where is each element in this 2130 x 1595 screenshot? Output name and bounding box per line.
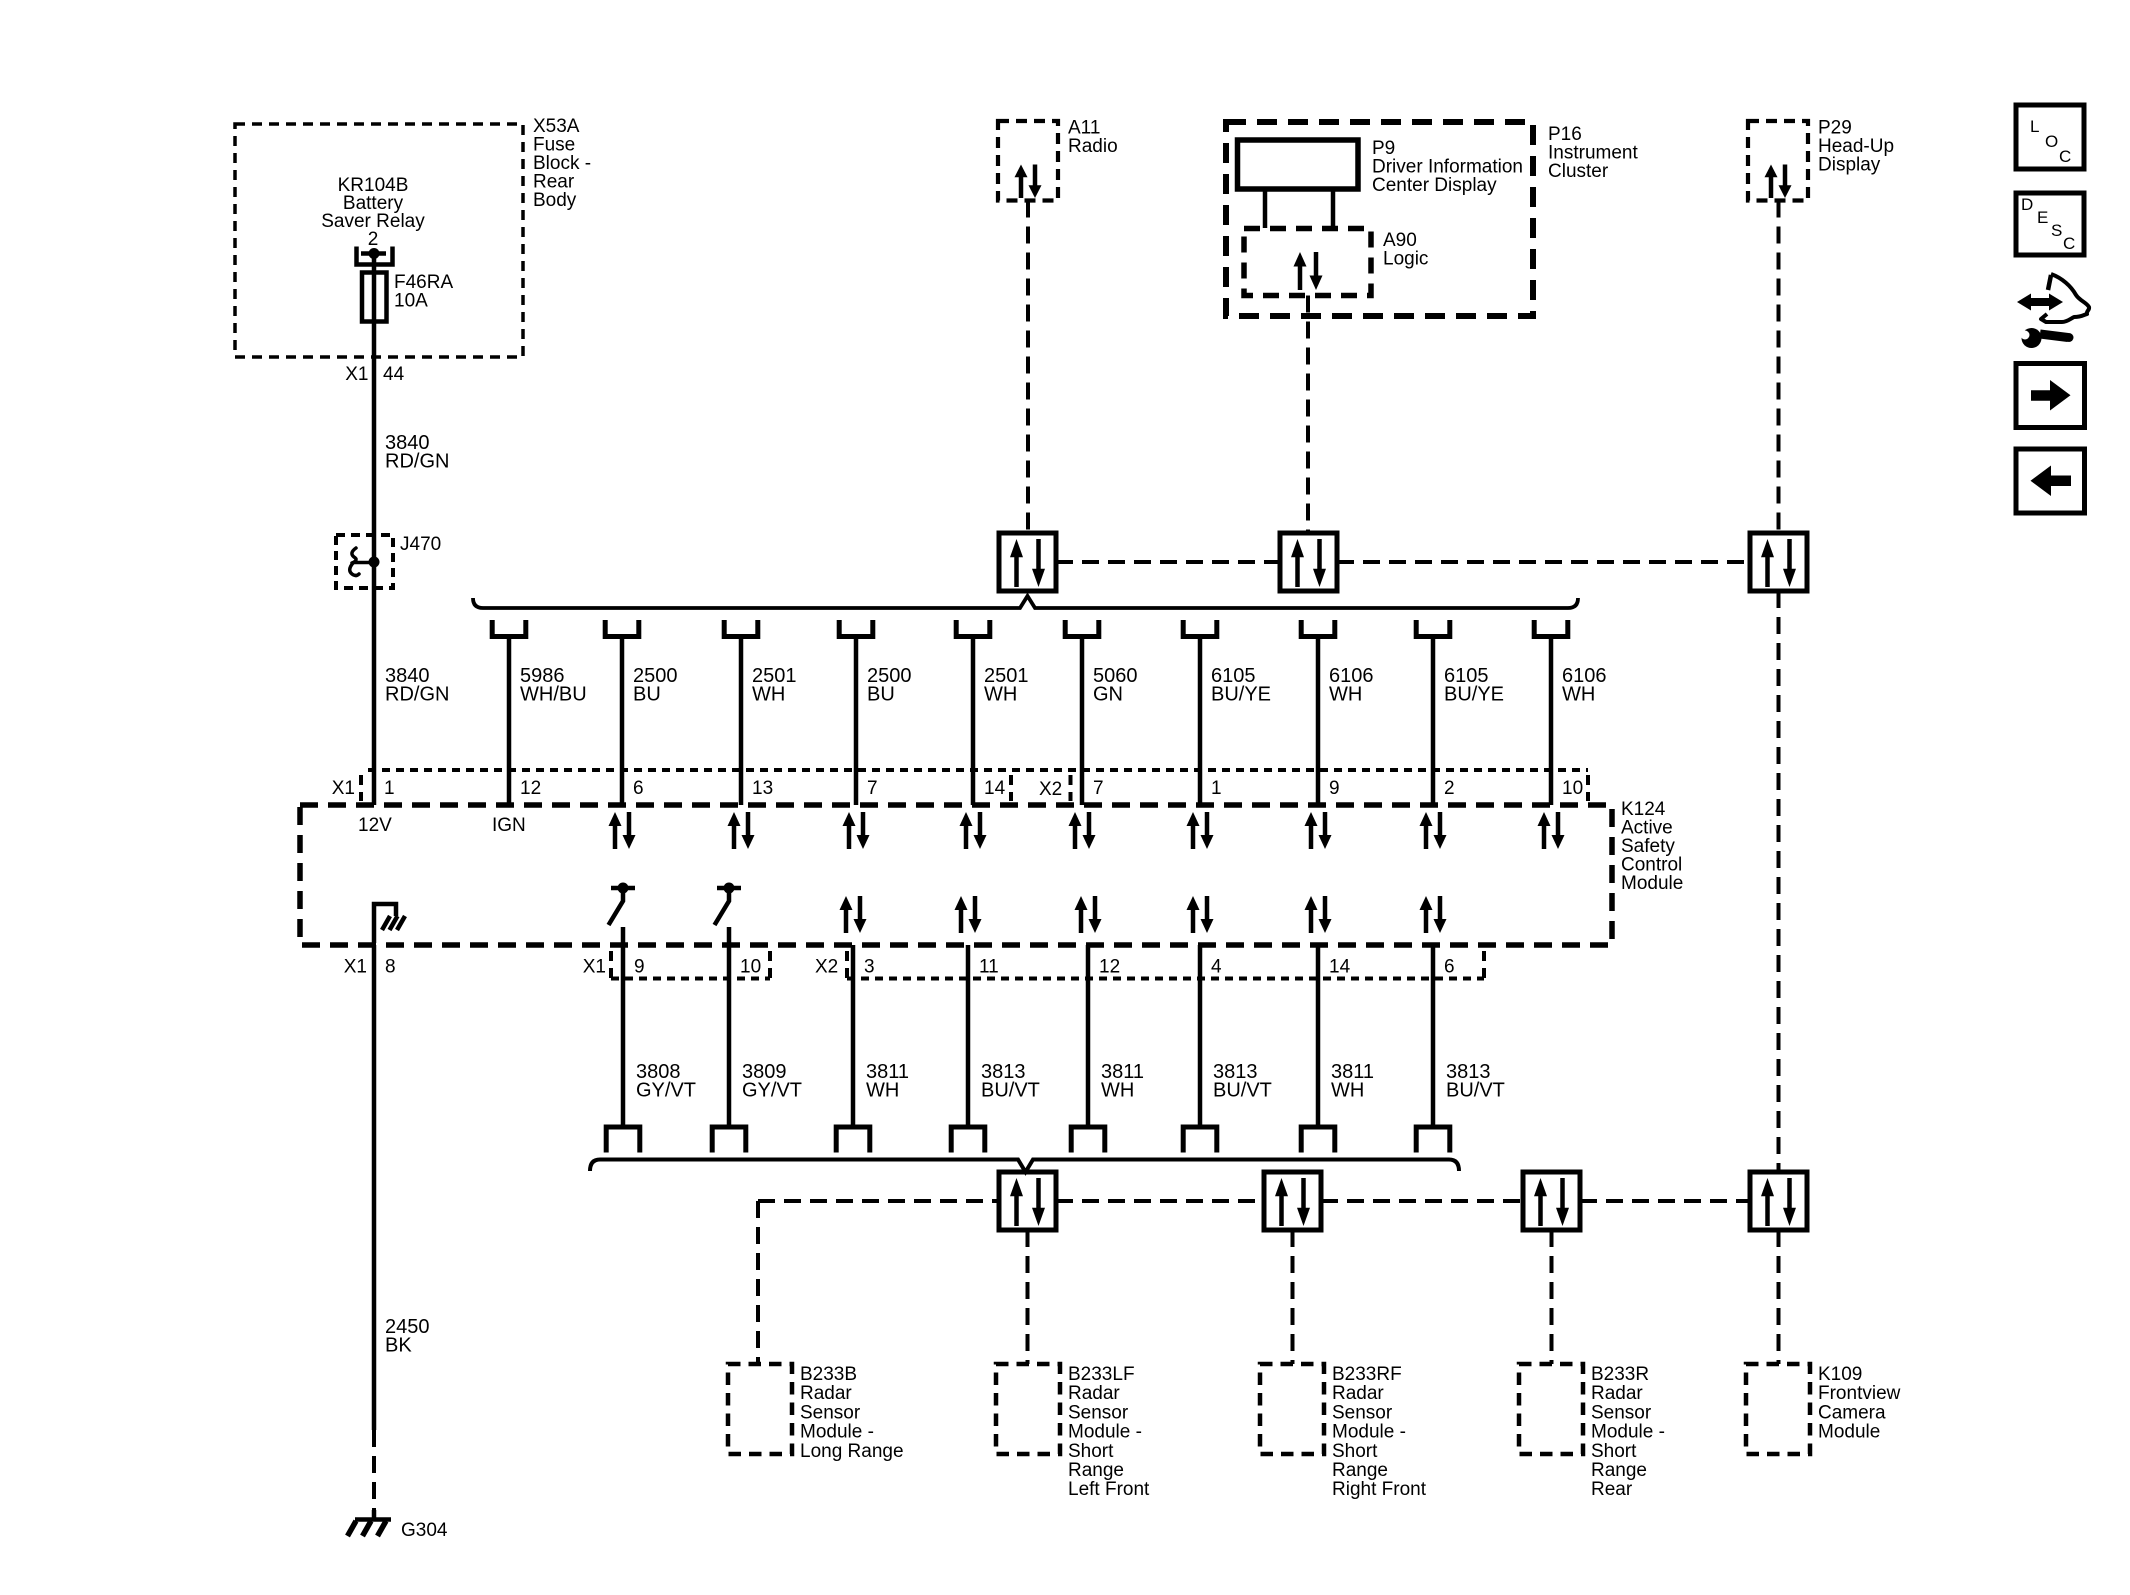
svg-text:K109: K109 xyxy=(1818,1364,1862,1385)
svg-text:Module -: Module - xyxy=(1068,1422,1142,1443)
svg-text:X2: X2 xyxy=(1039,779,1062,800)
svg-text:Cluster: Cluster xyxy=(1548,161,1609,182)
svg-text:Radar: Radar xyxy=(800,1383,852,1404)
svg-text:10A: 10A xyxy=(394,291,428,312)
svg-text:B233R: B233R xyxy=(1591,1364,1649,1385)
svg-text:X1: X1 xyxy=(345,364,368,385)
svg-text:WH: WH xyxy=(1562,684,1595,706)
svg-text:Radar: Radar xyxy=(1068,1383,1120,1404)
svg-text:L: L xyxy=(2030,117,2039,136)
svg-text:Short: Short xyxy=(1068,1441,1114,1462)
svg-text:Module: Module xyxy=(1818,1422,1880,1443)
svg-text:10: 10 xyxy=(1562,778,1583,799)
svg-text:3: 3 xyxy=(864,957,875,978)
svg-text:RD/GN: RD/GN xyxy=(385,684,449,706)
svg-text:BU: BU xyxy=(867,684,895,706)
svg-text:C: C xyxy=(2063,234,2075,253)
svg-text:X1: X1 xyxy=(344,957,367,978)
svg-text:2: 2 xyxy=(1444,778,1455,799)
svg-text:10: 10 xyxy=(740,957,761,978)
svg-text:C: C xyxy=(2059,147,2071,166)
svg-text:8: 8 xyxy=(385,957,396,978)
svg-text:Logic: Logic xyxy=(1383,249,1428,270)
svg-text:9: 9 xyxy=(1329,778,1340,799)
svg-text:WH: WH xyxy=(1331,1080,1364,1102)
svg-text:X1: X1 xyxy=(583,957,606,978)
svg-text:Module -: Module - xyxy=(1591,1422,1665,1443)
svg-text:Radar: Radar xyxy=(1591,1383,1643,1404)
svg-text:BU/VT: BU/VT xyxy=(981,1080,1040,1102)
svg-text:9: 9 xyxy=(634,957,645,978)
svg-text:BU/YE: BU/YE xyxy=(1211,684,1271,706)
svg-text:Radio: Radio xyxy=(1068,136,1118,157)
svg-text:B233B: B233B xyxy=(800,1364,857,1385)
svg-text:Range: Range xyxy=(1591,1460,1647,1481)
svg-text:Sensor: Sensor xyxy=(1591,1402,1652,1423)
svg-text:G304: G304 xyxy=(401,1520,448,1541)
svg-text:Frontview: Frontview xyxy=(1818,1383,1901,1404)
svg-text:O: O xyxy=(2045,132,2058,151)
svg-text:Module: Module xyxy=(1621,873,1683,894)
svg-text:14: 14 xyxy=(1329,957,1351,978)
svg-text:D: D xyxy=(2021,195,2033,214)
svg-text:Sensor: Sensor xyxy=(800,1402,861,1423)
svg-text:11: 11 xyxy=(979,957,999,978)
svg-text:WH: WH xyxy=(752,684,785,706)
svg-text:1: 1 xyxy=(384,778,395,799)
svg-text:BU/VT: BU/VT xyxy=(1213,1080,1272,1102)
svg-text:Sensor: Sensor xyxy=(1332,1402,1393,1423)
svg-text:B233RF: B233RF xyxy=(1332,1364,1402,1385)
svg-text:7: 7 xyxy=(867,778,878,799)
svg-text:X1: X1 xyxy=(332,778,355,799)
svg-text:13: 13 xyxy=(752,778,773,799)
svg-text:B233LF: B233LF xyxy=(1068,1364,1135,1385)
svg-text:BK: BK xyxy=(385,1335,412,1357)
svg-text:Display: Display xyxy=(1818,155,1881,176)
svg-text:Range: Range xyxy=(1332,1460,1388,1481)
svg-text:GY/VT: GY/VT xyxy=(742,1080,802,1102)
svg-text:WH/BU: WH/BU xyxy=(520,684,587,706)
svg-text:S: S xyxy=(2051,221,2062,240)
svg-text:4: 4 xyxy=(1211,957,1222,978)
svg-text:44: 44 xyxy=(383,364,405,385)
svg-text:J470: J470 xyxy=(400,534,441,555)
svg-text:BU/VT: BU/VT xyxy=(1446,1080,1505,1102)
svg-text:E: E xyxy=(2037,208,2048,227)
svg-text:1: 1 xyxy=(1211,778,1222,799)
svg-text:WH: WH xyxy=(984,684,1017,706)
svg-text:Module -: Module - xyxy=(800,1422,874,1443)
svg-text:7: 7 xyxy=(1093,778,1104,799)
svg-text:12V: 12V xyxy=(358,815,392,836)
svg-text:Rear: Rear xyxy=(1591,1479,1633,1500)
svg-text:Radar: Radar xyxy=(1332,1383,1384,1404)
svg-text:Sensor: Sensor xyxy=(1068,1402,1129,1423)
svg-text:Short: Short xyxy=(1591,1441,1637,1462)
svg-text:12: 12 xyxy=(520,778,541,799)
svg-text:2: 2 xyxy=(368,229,379,250)
svg-text:Right Front: Right Front xyxy=(1332,1479,1427,1500)
svg-text:Body: Body xyxy=(533,190,577,211)
svg-text:X2: X2 xyxy=(815,957,838,978)
svg-text:Range: Range xyxy=(1068,1460,1124,1481)
svg-text:Module -: Module - xyxy=(1332,1422,1406,1443)
svg-text:IGN: IGN xyxy=(492,815,526,836)
svg-text:6: 6 xyxy=(1444,957,1455,978)
svg-text:14: 14 xyxy=(984,778,1006,799)
svg-text:WH: WH xyxy=(866,1080,899,1102)
svg-text:WH: WH xyxy=(1101,1080,1134,1102)
svg-text:Left Front: Left Front xyxy=(1068,1479,1150,1500)
svg-text:RD/GN: RD/GN xyxy=(385,451,449,473)
svg-text:6: 6 xyxy=(633,778,644,799)
svg-text:WH: WH xyxy=(1329,684,1362,706)
svg-text:12: 12 xyxy=(1099,957,1120,978)
svg-text:GN: GN xyxy=(1093,684,1123,706)
svg-text:BU: BU xyxy=(633,684,661,706)
svg-text:Long Range: Long Range xyxy=(800,1441,904,1462)
svg-text:BU/YE: BU/YE xyxy=(1444,684,1504,706)
svg-text:Camera: Camera xyxy=(1818,1402,1886,1423)
svg-text:Center Display: Center Display xyxy=(1372,175,1497,196)
svg-text:Short: Short xyxy=(1332,1441,1378,1462)
svg-text:GY/VT: GY/VT xyxy=(636,1080,696,1102)
